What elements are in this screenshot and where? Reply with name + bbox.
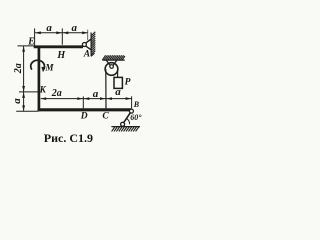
svg-text:D: D	[80, 112, 88, 122]
ground under rod (hatched)	[111, 127, 140, 132]
svg-text:60°: 60°	[130, 113, 142, 122]
svg-text:A: A	[83, 50, 90, 60]
ceiling for pulley (hatched)	[102, 55, 125, 60]
load P (weight block)	[114, 77, 122, 88]
svg-text:a: a	[72, 22, 78, 34]
angle arc 60deg	[127, 119, 130, 125]
pin support A (hinge to wall)	[82, 39, 91, 50]
pulley hub	[110, 65, 114, 69]
svg-text:2a: 2a	[13, 63, 24, 74]
wire: bottom beam K-D-C-B	[38, 108, 132, 111]
svg-text:a: a	[11, 98, 23, 104]
bottom dimension line K-D-C-B	[41, 96, 132, 108]
pulley wheel	[105, 63, 118, 76]
svg-text:P: P	[125, 78, 131, 88]
svg-text:M: M	[45, 62, 55, 72]
svg-text:2a: 2a	[51, 88, 62, 99]
rope: right side from pulley to load P	[117, 69, 119, 78]
svg-text:a: a	[46, 22, 52, 34]
left dimension line (2a and a)	[16, 46, 40, 111]
svg-text:К: К	[39, 84, 47, 94]
pulley bracket	[106, 60, 116, 66]
rod support at B (60 deg)	[121, 109, 134, 126]
svg-text:a: a	[93, 88, 99, 100]
svg-text:a: a	[115, 86, 121, 98]
svg-text:C: C	[102, 112, 109, 122]
svg-text:H: H	[56, 50, 66, 61]
svg-text:Рис. С1.9: Рис. С1.9	[44, 131, 93, 145]
rope: left side from pulley down to C	[105, 69, 107, 108]
svg-text:B: B	[133, 100, 140, 109]
wire: vertical column from E-beam down to bottom beam	[38, 46, 41, 112]
moment M (circular arrow on column)	[31, 60, 46, 72]
wall at A (hatched)	[91, 32, 95, 57]
top dimension line E-H-A	[35, 28, 88, 45]
wire: top beam E-A	[34, 45, 83, 48]
